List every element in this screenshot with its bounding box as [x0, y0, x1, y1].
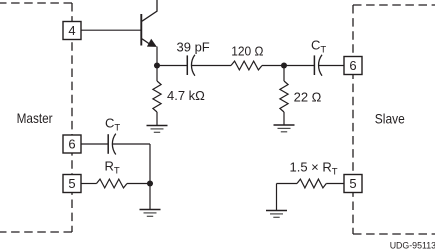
master boundary dashed box [0, 3, 72, 232]
wire: node B to capacitor CT right [284, 65, 314, 67]
node C junction dot [147, 180, 153, 186]
svg-text:CT: CT [105, 115, 120, 133]
resistor 1.5xRT [297, 179, 326, 188]
svg-text:5: 5 [68, 176, 75, 191]
wire: ground G4 to resistor 1.5xRT [277, 183, 298, 185]
wire: node A to capacitor 39pF [157, 65, 187, 67]
ground G3 [140, 210, 161, 217]
wire: capacitor CT left to corner [113, 143, 150, 145]
resistor 4.7 kohm [153, 81, 161, 112]
wire: pin 6 master to capacitor CT left [81, 143, 108, 145]
pin 6 box slave [344, 57, 362, 75]
resistor 120 ohm [231, 61, 262, 70]
slave boundary dashed box [353, 5, 435, 234]
wire: node B down to resistor 22 [283, 66, 285, 82]
capacitor 39 pF [187, 55, 195, 76]
pin 5 box slave [344, 175, 362, 193]
wire: corner down through node C to ground G3 [149, 144, 151, 210]
pin 4 box [63, 22, 81, 40]
svg-text:22 Ω: 22 Ω [294, 89, 322, 104]
svg-text:6: 6 [68, 137, 75, 152]
capacitor CT left [108, 134, 116, 155]
svg-text:Slave: Slave [375, 111, 405, 127]
resistor 22 ohm [280, 81, 288, 112]
svg-text:1.5 × RT: 1.5 × RT [290, 159, 338, 177]
wire: node A down to resistor 4.7k [156, 66, 158, 82]
wire: capacitor CT right to pin 6 slave [319, 65, 344, 67]
transistor Q1 [141, 0, 157, 47]
svg-text:UDG-95113: UDG-95113 [390, 241, 435, 250]
pin 6 box master [63, 135, 81, 153]
node B junction dot [281, 62, 287, 68]
svg-text:RT: RT [105, 158, 120, 176]
pin 5 box master [63, 175, 81, 193]
resistor RT [97, 179, 128, 188]
wire: resistor 1.5xRT to pin 5 slave [326, 183, 344, 185]
svg-text:6: 6 [349, 58, 356, 73]
node A junction dot [154, 62, 160, 68]
svg-text:4.7 kΩ: 4.7 kΩ [167, 88, 205, 103]
wire: ground stub up to slave resistor row [276, 184, 278, 211]
wire: resistor RT to node C [127, 183, 150, 185]
svg-text:5: 5 [349, 176, 356, 191]
wire: Q1 emitter down to node A [156, 47, 158, 66]
svg-text:4: 4 [68, 23, 75, 38]
svg-text:120 Ω: 120 Ω [231, 44, 264, 59]
svg-text:Master: Master [17, 110, 53, 126]
ground G2 [274, 125, 295, 132]
wire: capacitor 39pF to resistor 120 [192, 65, 231, 67]
svg-text:CT: CT [311, 38, 326, 56]
ground G4 [266, 211, 287, 218]
wire: pin 5 master to resistor RT [81, 183, 97, 185]
wire: pin 4 to Q1 base [81, 29, 141, 31]
capacitor CT right [314, 55, 322, 76]
ground G1 [147, 126, 168, 133]
svg-text:39 pF: 39 pF [177, 39, 210, 54]
wire: resistor 120 to node B [262, 65, 284, 67]
wire: resistor 4.7k to ground G1 [156, 112, 158, 126]
wire: resistor 22 to ground G2 [283, 112, 285, 125]
